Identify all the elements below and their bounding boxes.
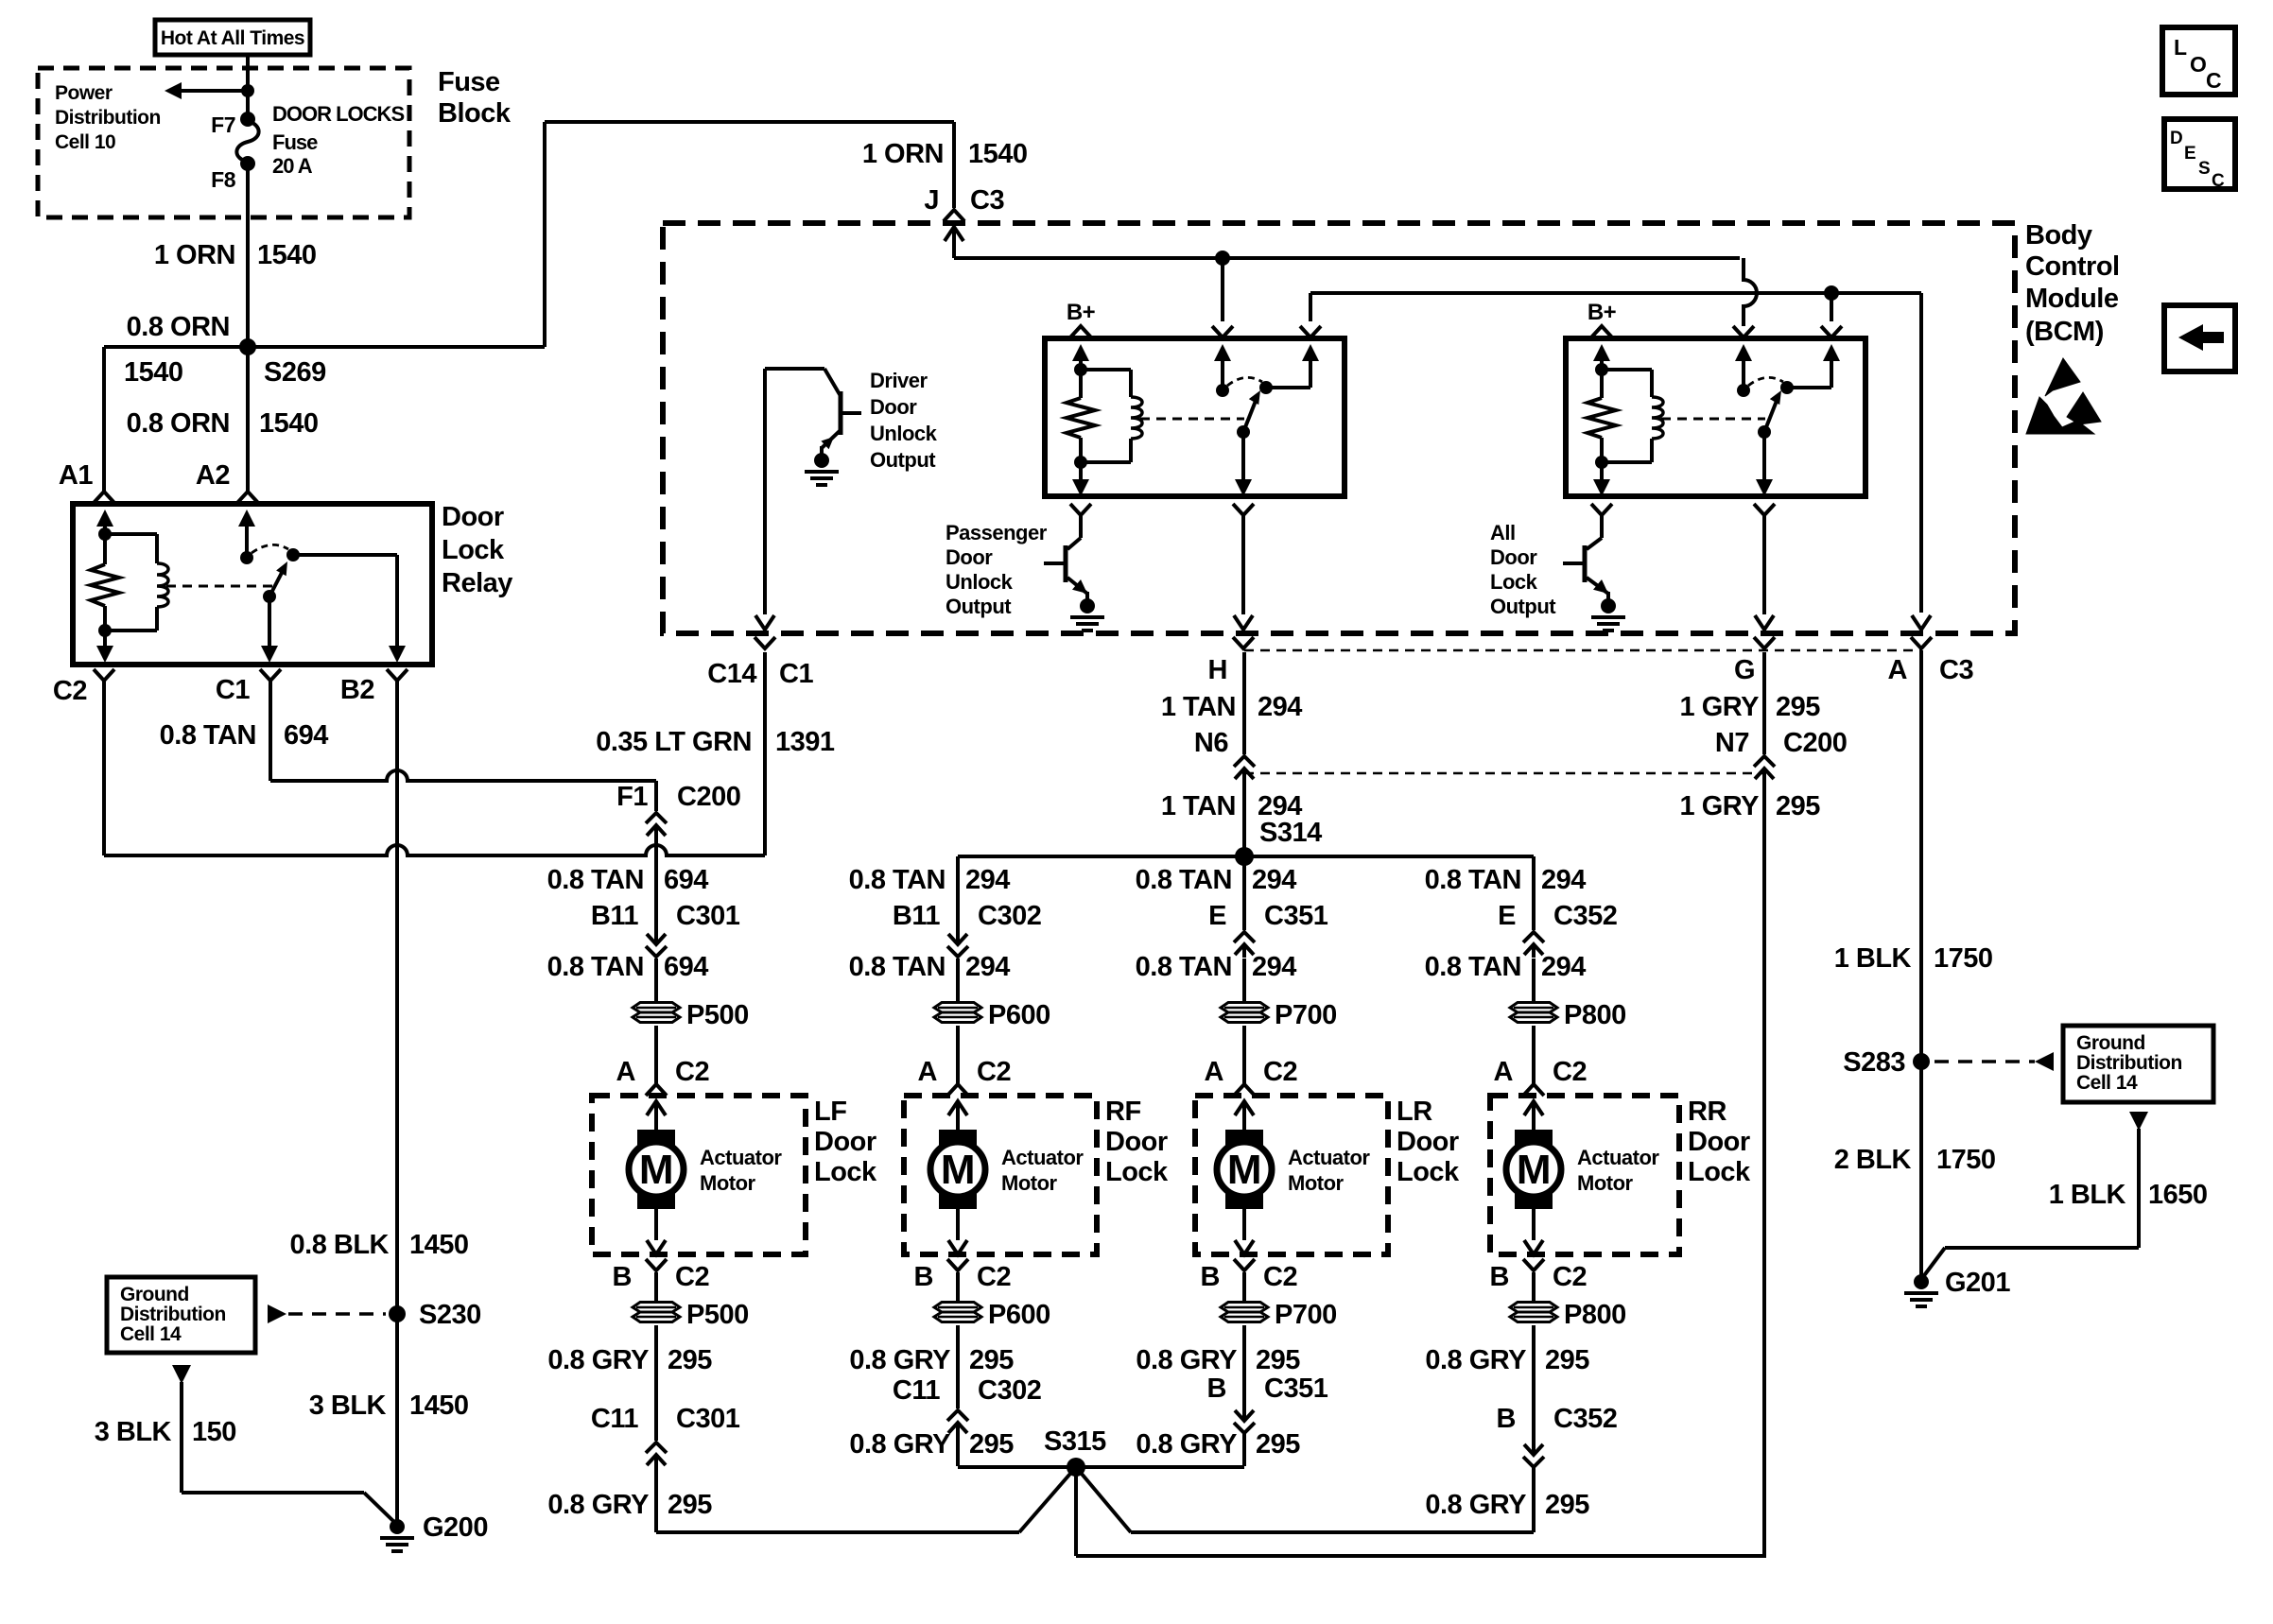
svg-text:C2: C2 — [1553, 1262, 1587, 1292]
svg-text:Lock: Lock — [1688, 1157, 1751, 1187]
svg-text:0.8 TAN: 0.8 TAN — [1425, 952, 1521, 982]
svg-text:C14: C14 — [707, 659, 756, 689]
svg-text:Cell 10: Cell 10 — [55, 131, 115, 153]
svg-text:A: A — [616, 1057, 636, 1087]
svg-text:294: 294 — [1252, 865, 1296, 895]
svg-text:1450: 1450 — [409, 1230, 469, 1260]
svg-text:B11: B11 — [591, 901, 638, 931]
relay2 middle terminal feed — [1742, 321, 1745, 326]
LR Door Lock box — [1195, 1096, 1388, 1254]
svg-text:Power: Power — [55, 82, 113, 104]
splice S269 — [239, 338, 256, 355]
relay switch — [1733, 326, 1754, 337]
svg-text:294: 294 — [1258, 692, 1302, 722]
svg-text:(BCM): (BCM) — [2025, 317, 2104, 347]
svg-text:295: 295 — [668, 1345, 712, 1375]
svg-text:294: 294 — [1541, 952, 1586, 982]
Body Control Module dashed box — [663, 223, 2015, 633]
svg-text:B: B — [914, 1262, 933, 1292]
S315 right diagonal + RR rail — [1076, 1467, 1131, 1532]
BCM output H — [1241, 513, 1245, 614]
svg-text:L: L — [2174, 35, 2187, 60]
arrow to Power Distribution — [176, 89, 248, 93]
svg-text:P700: P700 — [1275, 1000, 1337, 1030]
LR door feed wire 0.8 TAN 294 — [1242, 856, 1246, 930]
svg-text:Block: Block — [438, 98, 512, 129]
actuator motor (RR) — [1524, 1101, 1543, 1115]
svg-text:0.8 GRY: 0.8 GRY — [1425, 1345, 1526, 1375]
svg-text:Lock: Lock — [814, 1157, 877, 1187]
hop over second bus — [1744, 258, 1757, 321]
grommet P600 (return) — [934, 1303, 981, 1322]
svg-text:Passenger: Passenger — [946, 521, 1048, 544]
svg-text:C351: C351 — [1264, 901, 1328, 931]
svg-text:RF: RF — [1105, 1097, 1141, 1127]
svg-text:Fuse: Fuse — [272, 130, 318, 154]
svg-text:0.8 GRY: 0.8 GRY — [547, 1345, 649, 1375]
svg-text:S269: S269 — [264, 357, 326, 388]
svg-text:J: J — [924, 185, 939, 216]
svg-text:A: A — [918, 1057, 938, 1087]
svg-text:C200: C200 — [677, 782, 740, 812]
svg-text:3 BLK: 3 BLK — [95, 1417, 172, 1447]
svg-text:Motor: Motor — [700, 1171, 756, 1195]
svg-text:P500: P500 — [686, 1000, 749, 1030]
grommet P700 (return) — [1221, 1303, 1268, 1322]
svg-text:Door: Door — [1105, 1127, 1168, 1157]
svg-text:B: B — [613, 1262, 632, 1292]
svg-text:G201: G201 — [1945, 1268, 2010, 1298]
connector C2 pin B (RR) — [1523, 1259, 1544, 1270]
wire C1 to F1/C200 (0.8 TAN 694) with hop over B2 — [269, 681, 272, 781]
svg-text:B+: B+ — [1067, 300, 1096, 325]
coil output to transistor — [1070, 504, 1091, 515]
svg-text:1 GRY: 1 GRY — [1680, 791, 1760, 821]
wire from Hot At All Times into fuse block — [246, 55, 250, 119]
svg-text:C2: C2 — [53, 676, 87, 706]
svg-text:0.8 TAN: 0.8 TAN — [547, 952, 644, 982]
BCM relay (all door lock) box — [1566, 338, 1865, 496]
svg-text:LR: LR — [1397, 1097, 1432, 1127]
svg-text:2 BLK: 2 BLK — [1834, 1145, 1912, 1175]
svg-text:Ground: Ground — [120, 1284, 189, 1305]
grommet P800 — [1510, 1003, 1557, 1023]
RR Door Lock box — [1490, 1096, 1679, 1254]
svg-text:Lock: Lock — [1105, 1157, 1169, 1187]
svg-text:1650: 1650 — [2148, 1180, 2208, 1210]
in-line connector C200 N6/N7 — [1242, 652, 1246, 754]
svg-text:1540: 1540 — [257, 240, 317, 270]
svg-text:Motor: Motor — [1577, 1171, 1634, 1195]
svg-text:1750: 1750 — [1936, 1145, 1996, 1175]
svg-text:0.8 TAN: 0.8 TAN — [1136, 952, 1232, 982]
svg-text:1391: 1391 — [775, 727, 835, 757]
connector C2 pin B (RF) — [947, 1259, 968, 1270]
svg-text:Actuator: Actuator — [1577, 1146, 1659, 1169]
svg-text:B: B — [1490, 1262, 1509, 1292]
svg-text:S283: S283 — [1843, 1047, 1905, 1078]
svg-text:P500: P500 — [686, 1300, 749, 1330]
RF door feed wire 0.8 TAN 294 — [956, 856, 960, 930]
wire H 1 TAN 294 to S314 — [1242, 777, 1246, 856]
svg-text:Module: Module — [2025, 284, 2119, 314]
svg-text:0.8 GRY: 0.8 GRY — [1136, 1345, 1237, 1375]
svg-text:C302: C302 — [978, 1375, 1041, 1406]
svg-text:G200: G200 — [423, 1512, 488, 1543]
svg-text:Distribution: Distribution — [2076, 1052, 2182, 1074]
BCM internal bus (lock feed) — [1309, 293, 1312, 321]
actuator motor (RF) — [948, 1101, 967, 1115]
wire B2 down to S230/G200 — [395, 681, 399, 1527]
svg-text:O: O — [2190, 52, 2206, 77]
svg-text:Door: Door — [870, 395, 917, 419]
svg-text:1540: 1540 — [968, 139, 1028, 169]
svg-text:N6: N6 — [1194, 728, 1228, 758]
relay coil + resistor — [1600, 356, 1604, 370]
coil output to transistor — [1591, 504, 1612, 515]
svg-text:0.8 GRY: 0.8 GRY — [849, 1429, 950, 1460]
svg-text:A: A — [1494, 1057, 1514, 1087]
svg-text:294: 294 — [965, 865, 1010, 895]
actuator motor (LR) — [1235, 1101, 1254, 1115]
svg-text:0.8 ORN: 0.8 ORN — [127, 408, 230, 439]
LOC icon box — [2162, 27, 2235, 95]
svg-text:150: 150 — [192, 1417, 236, 1447]
Hot At All Times box — [155, 20, 310, 55]
wire A/C3 down to S283 — [1919, 650, 1923, 1062]
connector C2 pin B (LR) — [1234, 1259, 1255, 1270]
wire S269 left branch to A1 — [104, 345, 248, 349]
svg-text:Fuse: Fuse — [438, 67, 500, 97]
relay switch (door lock relay) — [245, 522, 249, 558]
svg-text:1540: 1540 — [124, 357, 183, 388]
svg-text:B+: B+ — [1588, 300, 1617, 325]
svg-text:295: 295 — [1256, 1345, 1300, 1375]
svg-text:295: 295 — [969, 1429, 1014, 1460]
svg-text:Unlock: Unlock — [870, 422, 938, 445]
RF Door Lock box — [904, 1096, 1097, 1254]
svg-text:0.8 GRY: 0.8 GRY — [1425, 1490, 1526, 1520]
svg-text:C1: C1 — [779, 659, 813, 689]
svg-text:Hot At All Times: Hot At All Times — [161, 27, 304, 49]
transistor: Driver Door Unlock Output — [765, 367, 824, 371]
svg-text:Distribution: Distribution — [55, 107, 161, 129]
svg-text:Door: Door — [946, 545, 993, 569]
svg-text:0.8 TAN: 0.8 TAN — [849, 952, 946, 982]
BCM relay (passenger unlock) box — [1045, 338, 1345, 496]
svg-text:C: C — [2212, 171, 2225, 191]
svg-text:D: D — [2170, 129, 2182, 148]
svg-text:A1: A1 — [59, 460, 93, 491]
BCM connector C3 dashed line — [1244, 649, 1921, 652]
S315 rail RF-LR — [958, 1465, 1244, 1469]
svg-text:0.8 GRY: 0.8 GRY — [849, 1345, 950, 1375]
svg-text:B: B — [1201, 1262, 1220, 1292]
svg-text:A: A — [1888, 655, 1908, 685]
Ground Distribution Cell 14 box (left) — [107, 1277, 255, 1353]
switch output — [1233, 504, 1254, 515]
svg-text:694: 694 — [284, 720, 328, 751]
svg-text:S315: S315 — [1044, 1426, 1106, 1457]
svg-text:Motor: Motor — [1001, 1171, 1058, 1195]
svg-text:3 BLK: 3 BLK — [309, 1391, 387, 1421]
svg-text:Driver: Driver — [870, 369, 928, 392]
svg-text:295: 295 — [1256, 1429, 1300, 1460]
svg-text:295: 295 — [1776, 692, 1820, 722]
BCM internal bus from J — [954, 256, 1740, 260]
svg-text:G: G — [1734, 655, 1755, 685]
svg-text:Actuator: Actuator — [1288, 1146, 1370, 1169]
Ground Distribution Cell 14 box (right) — [2063, 1026, 2213, 1102]
splice S230 — [389, 1305, 406, 1322]
svg-text:Relay: Relay — [442, 568, 512, 598]
svg-text:1540: 1540 — [259, 408, 319, 439]
svg-text:E: E — [1498, 901, 1516, 931]
svg-text:LF: LF — [814, 1097, 846, 1127]
svg-text:P800: P800 — [1564, 1000, 1626, 1030]
svg-text:694: 694 — [664, 952, 708, 982]
svg-text:B: B — [1207, 1373, 1226, 1404]
grommet P700 — [1221, 1003, 1268, 1023]
svg-text:C352: C352 — [1553, 901, 1617, 931]
svg-text:All: All — [1490, 521, 1516, 544]
svg-text:F8: F8 — [211, 167, 236, 192]
svg-text:1 ORN: 1 ORN — [862, 139, 944, 169]
svg-text:RR: RR — [1688, 1097, 1726, 1127]
svg-text:P600: P600 — [988, 1300, 1050, 1330]
transistor: Passenger Door Unlock Output — [1079, 513, 1083, 538]
svg-text:P800: P800 — [1564, 1300, 1626, 1330]
svg-text:C301: C301 — [676, 1404, 740, 1434]
svg-text:Door: Door — [442, 502, 504, 532]
svg-text:Output: Output — [946, 595, 1012, 618]
svg-text:C2: C2 — [675, 1057, 709, 1087]
coil-switch dashed link — [166, 585, 274, 588]
coil-switch dashed link — [1140, 418, 1244, 421]
svg-text:295: 295 — [1545, 1345, 1589, 1375]
S315 left diagonal + LF rail — [1019, 1467, 1076, 1532]
svg-text:1 GRY: 1 GRY — [1680, 692, 1760, 722]
svg-text:Actuator: Actuator — [1001, 1146, 1084, 1169]
BCM output C14/C1 — [755, 637, 775, 648]
svg-text:Lock: Lock — [442, 535, 505, 565]
splice S283 — [1913, 1053, 1930, 1070]
svg-text:C301: C301 — [676, 901, 740, 931]
svg-text:295: 295 — [969, 1345, 1014, 1375]
BCM output G — [1762, 513, 1766, 614]
svg-text:C351: C351 — [1264, 1373, 1328, 1404]
svg-text:1450: 1450 — [409, 1391, 469, 1421]
svg-text:Actuator: Actuator — [700, 1146, 782, 1169]
svg-text:C: C — [2206, 68, 2221, 93]
coil-switch dashed link — [1661, 418, 1765, 421]
svg-text:Unlock: Unlock — [946, 570, 1014, 594]
svg-text:Motor: Motor — [1288, 1171, 1345, 1195]
svg-text:S: S — [2198, 159, 2210, 179]
dashed ref to Ground Distribution Cell 14 — [1935, 1060, 2035, 1063]
grommet P800 (return) — [1510, 1303, 1557, 1322]
wire 3 BLK 150 from cell14 to G200 — [172, 1365, 191, 1384]
svg-text:S230: S230 — [419, 1300, 481, 1330]
back-arrow icon box — [2164, 305, 2235, 371]
wire G 1 GRY 295 down to S315 rail — [1762, 777, 1766, 1556]
dashed ref to S230 — [268, 1304, 286, 1323]
relay coil + resistor — [1079, 356, 1083, 370]
svg-text:C3: C3 — [970, 185, 1004, 216]
svg-text:0.8 TAN: 0.8 TAN — [849, 865, 946, 895]
svg-text:C11: C11 — [591, 1404, 638, 1434]
splice S314 — [1235, 847, 1254, 866]
RR door feed wire 0.8 TAN 294 — [1532, 856, 1536, 930]
svg-text:Ground: Ground — [2076, 1032, 2145, 1054]
svg-text:0.8 ORN: 0.8 ORN — [127, 312, 230, 342]
svg-text:C2: C2 — [977, 1262, 1011, 1292]
svg-text:C2: C2 — [1263, 1057, 1297, 1087]
svg-text:H: H — [1208, 655, 1227, 685]
svg-text:C2: C2 — [675, 1262, 709, 1292]
Door Lock Relay box — [73, 504, 432, 665]
svg-text:Cell 14: Cell 14 — [120, 1323, 182, 1345]
svg-text:E: E — [2184, 144, 2195, 164]
svg-text:N7: N7 — [1715, 728, 1749, 758]
svg-text:0.8 TAN: 0.8 TAN — [160, 720, 256, 751]
BCM output A/C3 — [1912, 615, 1931, 630]
S315 to BCM G rail — [1074, 1467, 1078, 1556]
svg-text:295: 295 — [1776, 791, 1820, 821]
svg-text:Control: Control — [2025, 251, 2120, 282]
svg-text:0.8 BLK: 0.8 BLK — [290, 1230, 390, 1260]
svg-text:C1: C1 — [216, 675, 250, 705]
switch output — [1754, 504, 1775, 515]
grommet P500 (return) — [633, 1303, 680, 1322]
svg-text:Door: Door — [814, 1127, 876, 1157]
svg-text:P700: P700 — [1275, 1300, 1337, 1330]
svg-text:A: A — [1205, 1057, 1224, 1087]
svg-text:0.8 TAN: 0.8 TAN — [1425, 865, 1521, 895]
svg-text:0.35 LT GRN: 0.35 LT GRN — [596, 727, 752, 757]
svg-text:Body: Body — [2025, 220, 2092, 251]
svg-text:M: M — [639, 1147, 673, 1193]
ESD warning symbol — [2045, 358, 2080, 396]
svg-text:0.8 GRY: 0.8 GRY — [1136, 1429, 1237, 1460]
svg-text:M: M — [1517, 1147, 1551, 1193]
svg-text:C2: C2 — [1263, 1262, 1297, 1292]
svg-text:C2: C2 — [977, 1057, 1011, 1087]
svg-text:0.8 TAN: 0.8 TAN — [1136, 865, 1232, 895]
svg-text:20 A: 20 A — [272, 154, 313, 178]
svg-text:A2: A2 — [196, 460, 230, 491]
svg-text:Lock: Lock — [1490, 570, 1538, 594]
fuse block dashed box — [38, 68, 409, 217]
svg-text:Door: Door — [1397, 1127, 1459, 1157]
svg-text:Distribution: Distribution — [120, 1304, 226, 1325]
wire F8 to S269 — [246, 164, 250, 347]
svg-text:295: 295 — [1545, 1490, 1589, 1520]
grommet P600 — [934, 1003, 981, 1023]
svg-text:Door: Door — [1688, 1127, 1750, 1157]
ground G201 — [1914, 1274, 1929, 1289]
wire C2 to BCM driver output (coil return) with hops — [102, 681, 106, 855]
svg-text:1 TAN: 1 TAN — [1161, 791, 1236, 821]
svg-text:1 BLK: 1 BLK — [2049, 1180, 2126, 1210]
svg-text:1 BLK: 1 BLK — [1834, 943, 1912, 974]
svg-text:0.8 TAN: 0.8 TAN — [547, 865, 644, 895]
DESC icon box — [2164, 119, 2235, 189]
svg-text:C3: C3 — [1939, 655, 1973, 685]
wire S269 right branch up-over to BCM J — [248, 345, 545, 349]
svg-text:C200: C200 — [1783, 728, 1847, 758]
connector C2 pin B (LF) — [646, 1259, 667, 1270]
ground G200 — [390, 1519, 405, 1534]
svg-text:E: E — [1208, 901, 1226, 931]
relay outputs C2 C1 B2 — [94, 669, 114, 681]
svg-text:1750: 1750 — [1934, 943, 1993, 974]
svg-text:B11: B11 — [893, 901, 940, 931]
svg-text:M: M — [1227, 1147, 1261, 1193]
svg-text:C352: C352 — [1553, 1404, 1617, 1434]
svg-text:Door: Door — [1490, 545, 1537, 569]
svg-text:C11: C11 — [893, 1375, 940, 1406]
wire S269 down to A2 — [246, 347, 250, 492]
wire driver output to C1 — [763, 369, 767, 614]
LF Door Lock box — [592, 1096, 806, 1254]
svg-text:S314: S314 — [1259, 818, 1322, 848]
relay switch — [1212, 326, 1233, 337]
S314 distribution rail — [958, 855, 1534, 858]
svg-text:M: M — [941, 1147, 975, 1193]
svg-text:1 TAN: 1 TAN — [1161, 692, 1236, 722]
svg-text:C2: C2 — [1553, 1057, 1587, 1087]
svg-text:Output: Output — [870, 448, 936, 472]
svg-text:694: 694 — [664, 865, 708, 895]
grommet P500 — [633, 1003, 680, 1023]
svg-text:295: 295 — [668, 1490, 712, 1520]
svg-text:B2: B2 — [340, 675, 374, 705]
relay coil + resistor (door lock relay) — [103, 522, 107, 534]
svg-text:F7: F7 — [211, 112, 235, 137]
svg-text:C302: C302 — [978, 901, 1041, 931]
svg-text:294: 294 — [1541, 865, 1586, 895]
svg-text:294: 294 — [965, 952, 1010, 982]
svg-text:B: B — [1497, 1404, 1516, 1434]
svg-text:F1: F1 — [616, 782, 648, 812]
svg-text:Output: Output — [1490, 595, 1556, 618]
svg-text:1 ORN: 1 ORN — [154, 240, 235, 270]
actuator motor (LF) — [647, 1101, 666, 1115]
svg-text:DOOR LOCKS: DOOR LOCKS — [272, 102, 404, 126]
svg-text:294: 294 — [1252, 952, 1296, 982]
svg-text:0.8 GRY: 0.8 GRY — [547, 1490, 649, 1520]
svg-text:Lock: Lock — [1397, 1157, 1460, 1187]
svg-text:Cell 14: Cell 14 — [2076, 1072, 2138, 1094]
transistor: All Door Lock Output — [1600, 513, 1604, 538]
fuse F7/F8 DOOR LOCKS 20A — [240, 112, 255, 127]
svg-text:P600: P600 — [988, 1000, 1050, 1030]
wire 1 BLK 1650 from cell14 to G201 — [2129, 1112, 2148, 1131]
